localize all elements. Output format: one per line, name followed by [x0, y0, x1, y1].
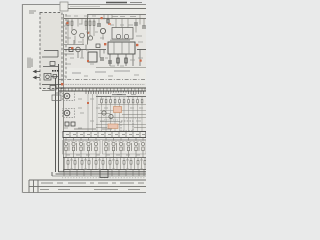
- vertical label text left margin: [28, 58, 32, 69]
- highlight dot 1: [66, 22, 68, 24]
- cross links: [96, 105, 146, 125]
- main connector bar: [63, 132, 146, 138]
- highlight dot 4: [108, 23, 111, 25]
- page border frame: [23, 5, 147, 193]
- transistor Q1: [72, 30, 77, 35]
- resistor R2: [71, 19, 73, 31]
- driver bank enclosure left: [63, 141, 101, 155]
- connector label box: [52, 88, 61, 101]
- components inside enclosure: [42, 51, 61, 91]
- resistor R7: [125, 58, 127, 63]
- relay K1: [108, 42, 135, 54]
- ground rail group: [52, 170, 146, 177]
- inline resistor row on fanout: [101, 100, 143, 103]
- text above connector bar: [74, 128, 112, 130]
- IC U1: [112, 28, 133, 40]
- wire row rail: [63, 157, 146, 159]
- resistor R4: [89, 19, 91, 31]
- bank drop wires: [66, 138, 143, 158]
- junction dots: [52, 70, 59, 72]
- highlight dot 10: [87, 102, 89, 104]
- wire drops below relay: [110, 50, 140, 67]
- highlight dot 5: [104, 43, 106, 45]
- output component row: [65, 158, 146, 170]
- input arrow 2: [34, 76, 41, 78]
- title block top line: [29, 179, 146, 181]
- IC U2: [88, 52, 97, 62]
- cell label text: [64, 141, 144, 143]
- capacitor C5: [142, 26, 146, 28]
- wire long vertical A: [55, 78, 57, 172]
- terminal E1: [63, 92, 75, 101]
- text flecks mid band: [62, 75, 143, 128]
- bus upper line: [59, 87, 146, 89]
- wire upper rail right: [88, 14, 146, 16]
- highlight dot 2: [87, 32, 89, 34]
- highlight dot 7: [71, 47, 73, 49]
- capacitor C1: [97, 24, 101, 26]
- highlight dot 11: [140, 60, 142, 62]
- page sheet: [0, 0, 147, 200]
- text flecks bar labels: [66, 134, 145, 136]
- text flecks top-right: [64, 16, 143, 66]
- wire long vertical C: [63, 14, 65, 172]
- short link wires mid: [96, 114, 146, 128]
- main board dashed edge: [65, 14, 67, 79]
- output row parts: [67, 161, 146, 165]
- resistor R5: [93, 19, 95, 31]
- capacitor C2: [100, 58, 104, 60]
- pin labels above bus: [63, 84, 145, 86]
- reference label top-left: [29, 11, 36, 13]
- highlight dot 9: [87, 60, 89, 62]
- wire stub row mid: [64, 40, 104, 58]
- signal fanout verticals: [88, 94, 142, 133]
- wire mid row: [64, 49, 146, 51]
- sub-board dashed enclosure: [40, 13, 62, 89]
- small parts upper mid-left: [65, 122, 75, 126]
- rail left bends: [51, 172, 53, 176]
- highlighted component H2: [108, 124, 118, 129]
- resistor R1: [67, 19, 69, 31]
- driver cells left bank: [64, 142, 97, 151]
- net number text mid: [104, 118, 142, 120]
- resistor R3: [85, 19, 87, 31]
- IC U3 dashed: [121, 121, 133, 131]
- wire lower rail right: [96, 67, 146, 69]
- wire top rail: [64, 18, 146, 20]
- highlight dot 3: [101, 17, 103, 19]
- rail crossing ticks: [64, 170, 144, 177]
- input arrow 1: [34, 70, 41, 72]
- transistor Q2b: [88, 36, 92, 40]
- net labels above boundary: [72, 71, 130, 73]
- header strip top right: [60, 2, 146, 11]
- bus lower line: [59, 90, 146, 92]
- capacitor C3: [108, 61, 112, 63]
- transistor Q2: [80, 33, 85, 38]
- transistor Q5: [102, 111, 106, 115]
- board boundary dash-dot line: [59, 79, 146, 81]
- resistor R6: [117, 58, 119, 63]
- junction box on rails: [100, 170, 108, 178]
- highlight dot 6: [136, 44, 138, 46]
- transistor Q4: [76, 47, 81, 52]
- title block text row 1: [41, 182, 144, 184]
- transistor Q3: [100, 28, 105, 33]
- resistor R8: [107, 19, 109, 23]
- pin number row under rails: [62, 177, 145, 179]
- net name text: [42, 90, 54, 92]
- text flecks bottom rows: [66, 155, 143, 169]
- diode D2: [96, 44, 100, 48]
- driver cells right bank: [104, 142, 144, 151]
- highlight dot 8: [61, 83, 63, 85]
- wire drops top area: [68, 15, 144, 45]
- bus ladder ticks: [65, 88, 145, 91]
- wire sub rail: [96, 96, 146, 98]
- transistor Q6: [109, 114, 113, 118]
- title block mid line: [29, 186, 146, 188]
- wire branch vertical: [87, 14, 89, 45]
- wire long vertical B: [58, 64, 60, 172]
- bus line below bar: [63, 139, 146, 141]
- connector J1 pin comb: [86, 91, 144, 94]
- driver bank enclosure right: [103, 141, 147, 155]
- relay label text: [110, 39, 130, 41]
- capacitor C4: [134, 23, 138, 25]
- diode D1: [69, 48, 73, 52]
- net label on sub rail: [111, 93, 127, 97]
- title block text row 2: [40, 189, 140, 191]
- title block left edge: [29, 180, 38, 193]
- highlighted component H1: [114, 107, 122, 113]
- terminal E2: [63, 109, 75, 118]
